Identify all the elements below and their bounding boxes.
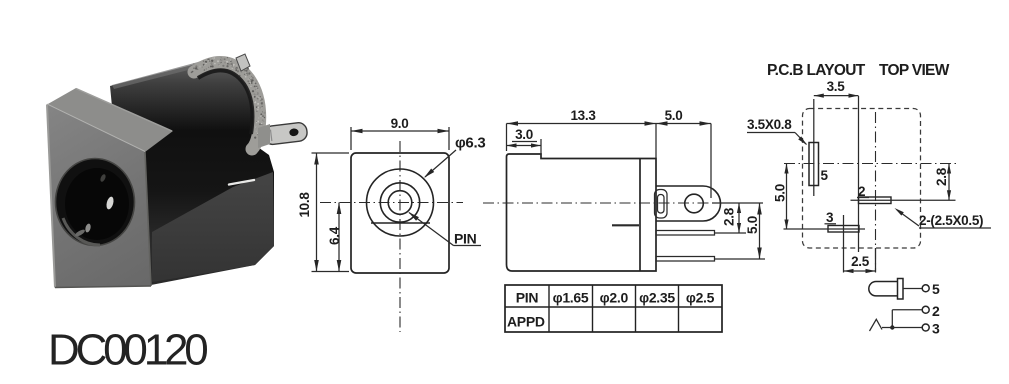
svg-text:φ6.3: φ6.3 <box>455 135 485 152</box>
svg-text:3.5X0.8: 3.5X0.8 <box>747 117 792 132</box>
svg-text:5.0: 5.0 <box>772 184 787 202</box>
svg-text:φ2.0: φ2.0 <box>600 290 629 306</box>
svg-text:9.0: 9.0 <box>391 116 409 131</box>
svg-text:PIN: PIN <box>516 290 539 306</box>
svg-text:DC00120: DC00120 <box>48 326 207 375</box>
svg-text:5: 5 <box>932 281 940 297</box>
svg-text:5.0: 5.0 <box>745 216 760 234</box>
svg-text:5.0: 5.0 <box>665 108 683 123</box>
svg-text:2-(2.5X0.5): 2-(2.5X0.5) <box>919 213 983 228</box>
svg-text:2: 2 <box>858 184 865 199</box>
svg-text:3: 3 <box>826 210 834 225</box>
svg-text:2.8: 2.8 <box>934 167 949 186</box>
svg-text:TOP VIEW: TOP VIEW <box>879 62 950 79</box>
svg-text:10.8: 10.8 <box>297 192 312 218</box>
svg-text:2.5: 2.5 <box>851 254 870 269</box>
svg-text:2.8: 2.8 <box>721 207 736 226</box>
svg-text:φ2.35: φ2.35 <box>639 290 675 306</box>
svg-text:2: 2 <box>932 303 940 319</box>
svg-text:φ2.5: φ2.5 <box>686 290 715 306</box>
svg-text:5: 5 <box>821 168 829 183</box>
svg-text:PIN: PIN <box>454 231 477 247</box>
svg-text:6.4: 6.4 <box>327 226 342 245</box>
svg-text:3: 3 <box>932 321 940 337</box>
svg-text:φ1.65: φ1.65 <box>553 290 589 306</box>
svg-text:3.0: 3.0 <box>515 127 533 142</box>
svg-text:13.3: 13.3 <box>570 108 596 123</box>
svg-text:3.5: 3.5 <box>827 79 846 94</box>
svg-text:APPD: APPD <box>507 314 545 330</box>
svg-text:P.C.B LAYOUT: P.C.B LAYOUT <box>767 62 866 79</box>
